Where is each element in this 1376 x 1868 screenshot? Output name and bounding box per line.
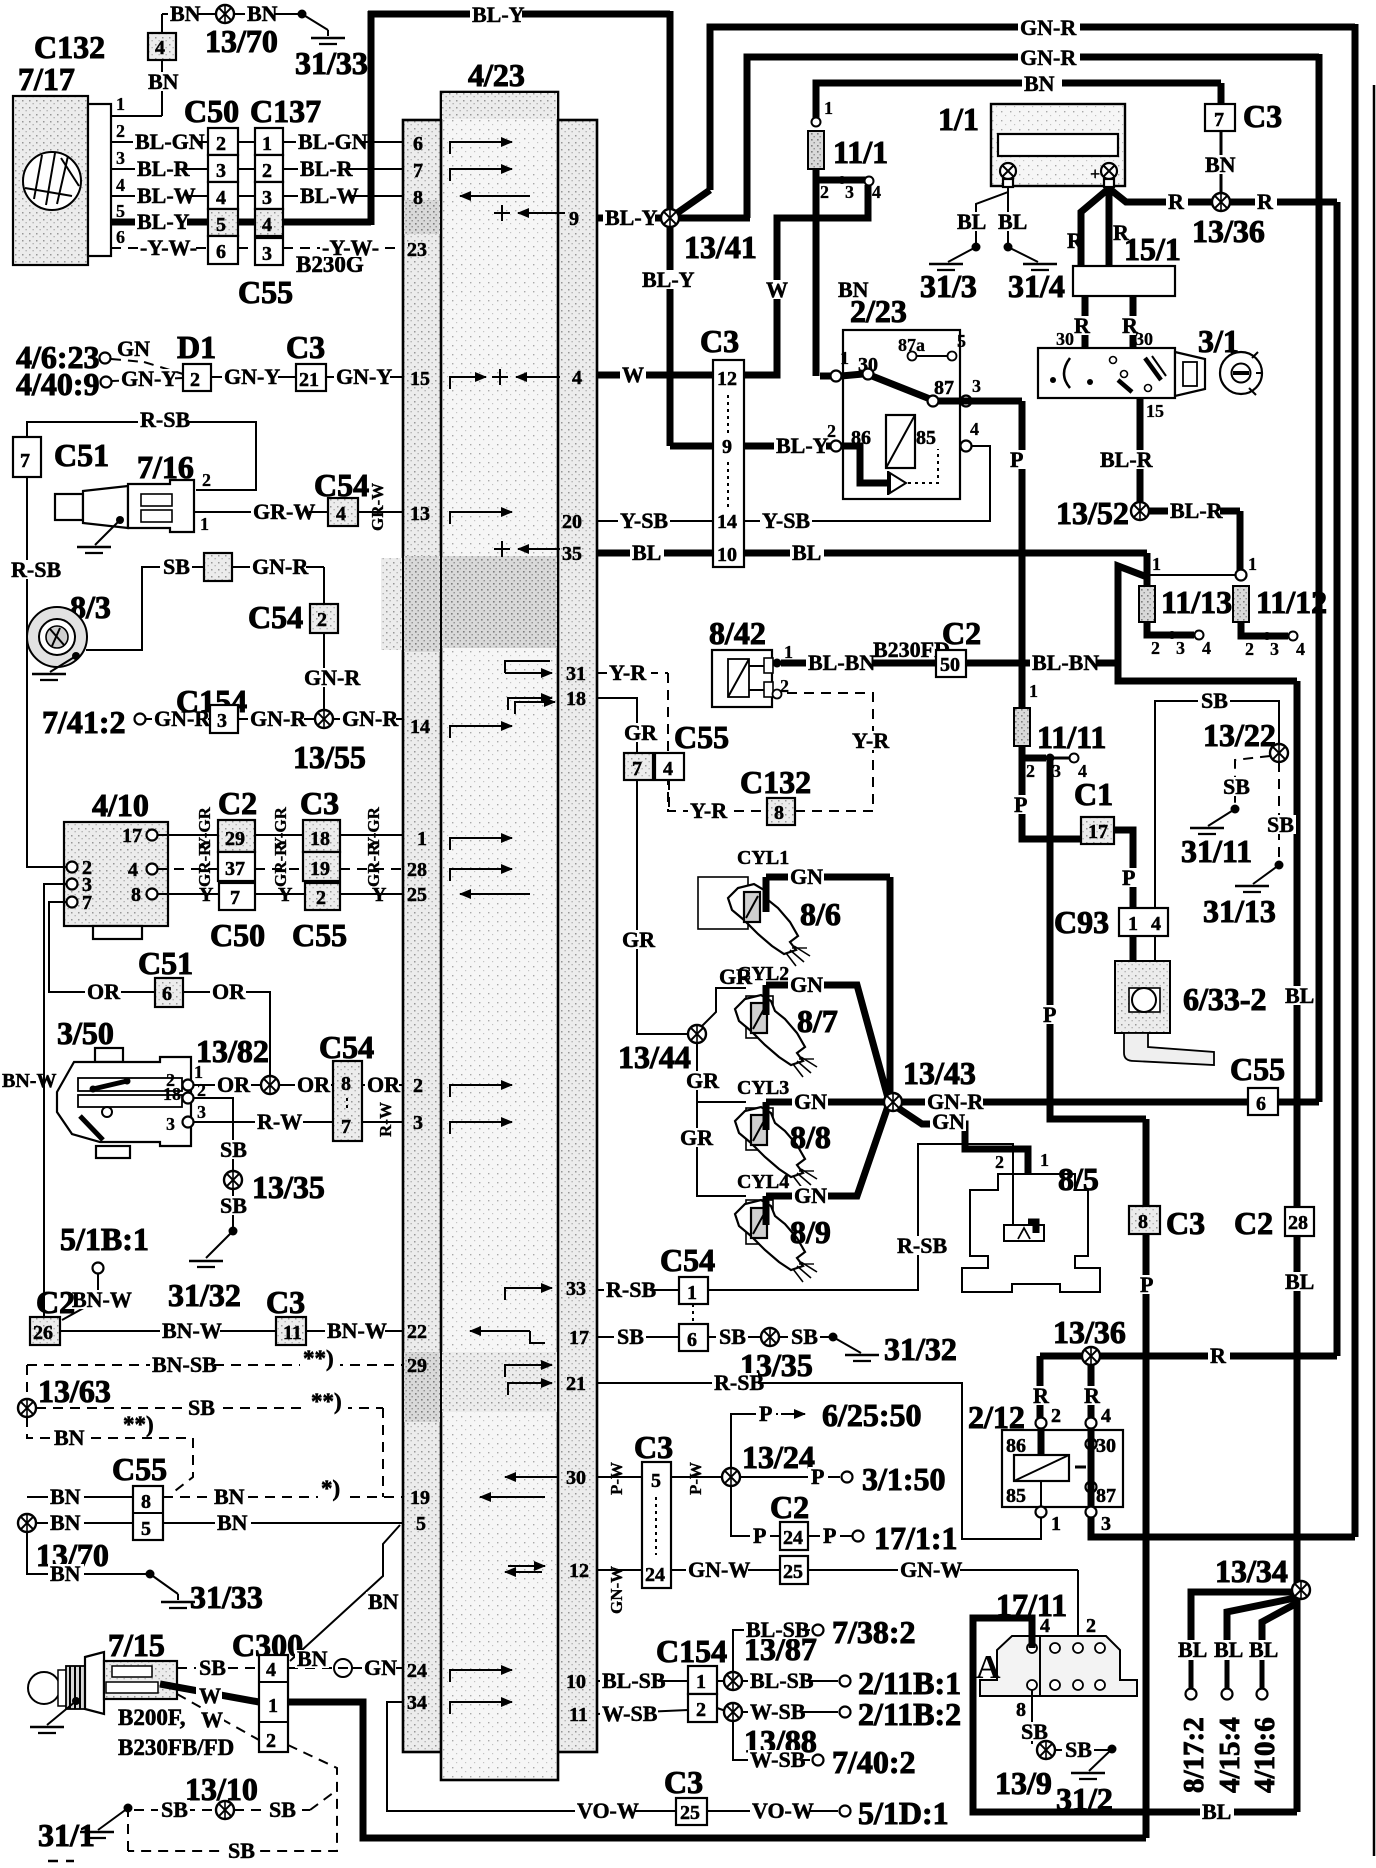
svg-text:VO-W: VO-W: [752, 1798, 814, 1823]
svg-text:7/15: 7/15: [108, 1627, 165, 1663]
svg-text:7: 7: [341, 1116, 351, 1138]
svg-text:5/1D:1: 5/1D:1: [858, 1795, 949, 1831]
svg-text:R: R: [1084, 1383, 1101, 1408]
svg-text:28: 28: [1288, 1212, 1308, 1234]
svg-text:SB: SB: [199, 1655, 226, 1680]
svg-text:GN-Y: GN-Y: [121, 366, 177, 391]
wire BN to ground 31/33: [27, 1532, 148, 1574]
wire R-W row pin 3: [193, 1121, 333, 1123]
svg-text:GR: GR: [624, 720, 658, 745]
svg-text:GR: GR: [680, 1125, 714, 1150]
svg-text:10: 10: [566, 1671, 586, 1693]
svg-text:4: 4: [970, 419, 979, 439]
svg-text:5/1B:1: 5/1B:1: [60, 1221, 149, 1257]
svg-text:BL-SB: BL-SB: [746, 1617, 810, 1642]
svg-text:BN: BN: [54, 1425, 85, 1450]
wire BL battery minus to grounds 31/3 31/4: [976, 187, 1008, 247]
idle valve 6/33-2: [1130, 936, 1137, 995]
svg-text:GR-W: GR-W: [368, 483, 387, 531]
wire W dashed 7/15 to C300 pin2: [177, 1694, 259, 1740]
svg-text:21: 21: [299, 369, 319, 391]
wire BL-SB to 2/11B:1: [741, 1680, 838, 1682]
svg-text:GR-R: GR-R: [364, 843, 383, 887]
svg-text:1: 1: [1128, 913, 1138, 935]
wire SB dashed to ground 31/13: [1278, 762, 1280, 862]
svg-text:BL: BL: [1178, 1637, 1207, 1662]
svg-text:50: 50: [940, 654, 960, 676]
svg-text:18: 18: [566, 688, 586, 710]
svg-text:37: 37: [225, 858, 245, 880]
svg-text:*): *): [321, 1476, 340, 1501]
svg-text:7/38:2: 7/38:2: [832, 1614, 916, 1650]
svg-text:4: 4: [266, 1659, 276, 1681]
svg-text:31: 31: [566, 663, 586, 685]
svg-text:17: 17: [122, 825, 142, 847]
svg-text:C50: C50: [184, 93, 239, 129]
wire P up to 6/25:50: [731, 1414, 778, 1468]
svg-text:SB: SB: [188, 1395, 215, 1420]
svg-text:SB: SB: [220, 1137, 247, 1162]
svg-text:R-SB: R-SB: [11, 557, 61, 582]
svg-text:34: 34: [407, 1692, 427, 1714]
wire BL-GN row: [111, 141, 208, 143]
svg-text:85: 85: [916, 427, 936, 449]
svg-text:13/9: 13/9: [995, 1765, 1052, 1801]
BL-Y top rail: [368, 11, 670, 18]
svg-text:SB: SB: [1223, 774, 1250, 799]
wire W-SB pin11 to C154 2: [597, 1710, 688, 1714]
svg-text:GN-W: GN-W: [688, 1557, 750, 1582]
svg-text:W-SB: W-SB: [750, 1699, 806, 1724]
wire P main vertical: [1143, 1119, 1150, 1838]
svg-text:VO-W: VO-W: [577, 1798, 639, 1823]
svg-text:1: 1: [840, 348, 849, 368]
svg-text:GN-R: GN-R: [250, 706, 307, 731]
svg-text:C3: C3: [664, 1764, 703, 1800]
svg-text:18: 18: [163, 1084, 181, 1104]
wire BN-W row pin 22: [60, 1330, 276, 1332]
svg-text:7: 7: [632, 758, 642, 780]
svg-text:C3: C3: [1243, 98, 1282, 134]
svg-text:Y-SB: Y-SB: [620, 508, 668, 533]
connector C54 box 2: [310, 604, 338, 633]
svg-text:15: 15: [1146, 401, 1164, 421]
svg-text:1: 1: [417, 828, 427, 850]
svg-text:13/36: 13/36: [1053, 1314, 1126, 1350]
svg-text:35: 35: [562, 543, 582, 565]
svg-text:BL: BL: [1285, 1269, 1314, 1294]
svg-text:3: 3: [216, 160, 226, 182]
wire GN-W row pin12: [597, 1569, 642, 1571]
wire BL branch 4/10:6: [1262, 1603, 1297, 1640]
svg-text:24: 24: [783, 1527, 803, 1549]
svg-text:87: 87: [934, 377, 954, 399]
svg-text:8: 8: [341, 1073, 351, 1095]
svg-text:2: 2: [1245, 639, 1254, 659]
svg-text:2: 2: [1026, 761, 1035, 781]
svg-text:24: 24: [645, 1564, 665, 1586]
svg-text:3: 3: [972, 376, 981, 396]
svg-text:8: 8: [1138, 1211, 1148, 1233]
svg-text:BL-W: BL-W: [137, 183, 196, 208]
svg-text:6/33-2: 6/33-2: [1183, 981, 1267, 1017]
wire BL-Y thick row: [111, 219, 208, 226]
svg-text:4: 4: [1202, 638, 1211, 658]
svg-text:1: 1: [1029, 681, 1038, 701]
svg-text:W: W: [622, 362, 644, 387]
wires C137 to ECU: [283, 141, 403, 143]
svg-text:2: 2: [820, 182, 829, 202]
svg-text:BN-W: BN-W: [162, 1318, 222, 1343]
svg-text:GN: GN: [794, 1089, 827, 1114]
wire BL-Y 13/41 to C3 9: [670, 443, 713, 450]
wire GN-R rail 1 right vertical: [1352, 24, 1359, 1537]
svg-text:BL: BL: [792, 540, 821, 565]
svg-text:6: 6: [1256, 1093, 1266, 1115]
svg-text:1: 1: [200, 514, 209, 534]
svg-text:8: 8: [413, 187, 423, 209]
wire BL label on vertical: [1283, 1272, 1313, 1291]
svg-text:10: 10: [717, 544, 737, 566]
page edge line: [1373, 85, 1376, 1856]
svg-text:SB: SB: [161, 1797, 188, 1822]
svg-text:13/34: 13/34: [1215, 1553, 1288, 1589]
wire 8/3 SB to box: [86, 567, 204, 650]
svg-text:4: 4: [216, 187, 226, 209]
svg-text:13/70: 13/70: [205, 23, 278, 59]
svg-text:BL: BL: [632, 540, 661, 565]
svg-text:3: 3: [1101, 1513, 1111, 1535]
svg-text:GR-W: GR-W: [253, 499, 315, 524]
wire BL-Y C3 9 to relay 86: [744, 443, 831, 450]
svg-text:SB: SB: [228, 1838, 255, 1863]
svg-text:85: 85: [1006, 1485, 1026, 1507]
svg-text:5: 5: [116, 201, 125, 221]
svg-text:7: 7: [82, 892, 92, 914]
wire R from pin3 to right rail: [1091, 1517, 1355, 1537]
wire GR to CYL2: [701, 988, 746, 1027]
svg-text:C2: C2: [36, 1284, 75, 1320]
wire W fuse leg to C3 12: [744, 185, 868, 375]
svg-text:Y-GR: Y-GR: [271, 806, 290, 849]
svg-text:3: 3: [1270, 639, 1279, 659]
svg-text:4: 4: [1101, 1405, 1111, 1427]
svg-text:31/2: 31/2: [1056, 1781, 1113, 1817]
svg-text:R-SB: R-SB: [897, 1233, 947, 1258]
wire P right to 3/1:50: [740, 1476, 840, 1478]
ground 31/32 right: [829, 1333, 838, 1342]
wire W pin 4 to C3 12: [597, 372, 713, 379]
svg-text:P: P: [753, 1523, 766, 1548]
splice 13/24: [722, 1468, 740, 1486]
svg-text:29: 29: [407, 1355, 427, 1377]
wire W thick 7/15 to C300 pin1: [160, 1684, 259, 1702]
svg-text:29: 29: [225, 828, 245, 850]
svg-text:BL-GN: BL-GN: [135, 129, 205, 154]
svg-text:31/33: 31/33: [295, 45, 368, 81]
svg-text:4: 4: [872, 182, 881, 202]
svg-text:GN-R: GN-R: [342, 706, 399, 731]
svg-text:5: 5: [216, 214, 226, 236]
wire R-SB pin33: [597, 1289, 679, 1291]
svg-text:OR: OR: [87, 979, 121, 1004]
svg-text:P: P: [1122, 865, 1135, 890]
svg-text:GN: GN: [790, 864, 823, 889]
svg-text:BL-R: BL-R: [1100, 447, 1154, 472]
svg-text:OR: OR: [212, 979, 246, 1004]
wire GR down to CYL3 CYL4: [697, 1043, 746, 1196]
wire GR-W row pin 13: [194, 511, 328, 513]
svg-text:BL-SB: BL-SB: [602, 1668, 666, 1693]
svg-text:31/32: 31/32: [884, 1331, 957, 1367]
svg-text:33: 33: [566, 1278, 586, 1300]
svg-text:3: 3: [217, 710, 227, 732]
svg-text:3: 3: [262, 243, 272, 265]
ECU 4/23 outer connector column: [403, 120, 597, 1752]
svg-text:31/32: 31/32: [168, 1277, 241, 1313]
svg-text:C3: C3: [286, 329, 325, 365]
wire BL-R row: [111, 168, 208, 170]
svg-text:BN: BN: [50, 1561, 81, 1586]
svg-text:18: 18: [310, 828, 330, 850]
svg-text:86: 86: [1006, 1435, 1026, 1457]
svg-text:SB: SB: [163, 554, 190, 579]
svg-text:31/11: 31/11: [1181, 833, 1252, 869]
svg-text:BN-W: BN-W: [2, 1070, 56, 1092]
svg-text:BL-W: BL-W: [300, 183, 359, 208]
svg-text:3: 3: [845, 182, 854, 202]
svg-text:Y-GR: Y-GR: [195, 806, 214, 849]
svg-text:GN: GN: [117, 336, 150, 361]
svg-text:C154: C154: [656, 1633, 727, 1669]
ground 31/1: [124, 1804, 133, 1813]
svg-text:BL-Y: BL-Y: [642, 267, 695, 292]
svg-text:7: 7: [230, 887, 240, 909]
svg-text:Y-R: Y-R: [852, 728, 890, 753]
splice 13/10: [216, 1801, 234, 1819]
svg-text:2: 2: [995, 1152, 1004, 1172]
wire Y-SB C3 14 to relay 4: [744, 446, 990, 521]
svg-text:**): **): [303, 1346, 334, 1371]
svg-text:BN: BN: [50, 1484, 81, 1509]
svg-text:-Y-W-: -Y-W-: [322, 235, 379, 260]
7/15 ground: [72, 1697, 80, 1705]
svg-text:2: 2: [1051, 1405, 1061, 1427]
svg-text:13/44: 13/44: [618, 1039, 691, 1075]
connector C54 boxes 8/7: [333, 1061, 362, 1141]
svg-text:GN-R: GN-R: [1020, 15, 1077, 40]
svg-text:4: 4: [1040, 1615, 1050, 1637]
svg-text:5: 5: [141, 1518, 151, 1540]
svg-text:R: R: [1033, 1383, 1050, 1408]
svg-text:1: 1: [262, 133, 272, 155]
wire GR pin18 to C55 7: [597, 698, 637, 753]
wire GN-R rail 2 right vertical: [1316, 54, 1323, 1102]
svg-text:BN: BN: [50, 1510, 81, 1535]
svg-text:A: A: [976, 1649, 1001, 1686]
svg-text:Y: Y: [199, 884, 214, 906]
svg-text:7: 7: [413, 160, 423, 182]
svg-text:BL-R: BL-R: [137, 156, 191, 181]
wire BL-W row: [111, 195, 208, 197]
wire OR from 4/10 pin7 to C51 box 6: [49, 902, 155, 992]
svg-text:4: 4: [262, 214, 272, 236]
svg-text:P: P: [759, 1401, 772, 1426]
svg-text:13/63: 13/63: [38, 1373, 111, 1409]
svg-text:GN-W: GN-W: [607, 1566, 626, 1614]
svg-text:GR-R: GR-R: [195, 843, 214, 887]
svg-text:GN: GN: [790, 972, 823, 997]
svg-text:C2: C2: [218, 785, 257, 821]
svg-text:8/6: 8/6: [800, 896, 841, 932]
splice 13/70 top: [216, 5, 234, 23]
svg-text:SB: SB: [269, 1797, 296, 1822]
svg-text:BL-BN: BL-BN: [808, 650, 875, 675]
wire GN-R rail 2: [747, 57, 1319, 218]
svg-text:BL: BL: [1214, 1637, 1243, 1662]
svg-text:C55: C55: [238, 274, 293, 310]
svg-text:30: 30: [1056, 329, 1074, 349]
wire R-SB to 7/16 pin 2: [27, 422, 256, 490]
svg-text:1: 1: [696, 1671, 706, 1693]
svg-text:31/3: 31/3: [920, 268, 977, 304]
svg-text:BN: BN: [1205, 152, 1236, 177]
svg-text:R: R: [1210, 1343, 1227, 1368]
svg-text:BN: BN: [217, 1510, 248, 1535]
svg-text:W: W: [766, 277, 788, 302]
svg-text:6/25:50: 6/25:50: [822, 1397, 922, 1433]
svg-text:8/42: 8/42: [709, 615, 766, 651]
wire W-SB to 2/11B:2: [741, 1711, 838, 1713]
svg-text:13/36: 13/36: [1192, 213, 1265, 249]
svg-text:4: 4: [128, 859, 138, 881]
svg-text:8/17:2: 8/17:2: [1178, 1717, 1210, 1793]
svg-text:5: 5: [957, 331, 966, 351]
svg-text:W: W: [201, 1707, 223, 1732]
wire BN C132 to 7/17 pin1: [161, 60, 163, 116]
speckle bands: [404, 200, 440, 234]
svg-text:B200F,: B200F,: [118, 1705, 186, 1730]
svg-text:17: 17: [1088, 821, 1108, 843]
svg-text:BL-Y: BL-Y: [472, 2, 525, 27]
svg-text:13/22: 13/22: [1203, 717, 1276, 753]
svg-text:2: 2: [262, 160, 272, 182]
svg-text:Y: Y: [372, 884, 387, 906]
svg-text:C3: C3: [700, 323, 739, 359]
svg-text:25: 25: [407, 884, 427, 906]
relay coil: [886, 415, 915, 468]
svg-text:2: 2: [116, 121, 125, 141]
wire SB dashed from C300 pin2: [128, 1745, 337, 1851]
svg-text:4/15:4: 4/15:4: [1214, 1717, 1246, 1793]
svg-text:R-W: R-W: [257, 1109, 302, 1134]
svg-text:4: 4: [1151, 913, 1161, 935]
svg-text:23: 23: [407, 239, 427, 261]
svg-text:25: 25: [783, 1561, 803, 1583]
svg-text:12: 12: [717, 368, 737, 390]
svg-text:CYL1: CYL1: [737, 847, 789, 869]
svg-text:BL-Y: BL-Y: [605, 205, 658, 230]
wire GR distribution: [637, 780, 688, 1034]
svg-text:22: 22: [407, 1321, 427, 1343]
wire SB from 3/50 pin 2 to ground: [193, 1098, 233, 1171]
svg-text:R: R: [1067, 228, 1084, 253]
svg-text:C54: C54: [319, 1029, 374, 1065]
svg-text:30: 30: [566, 1467, 586, 1489]
svg-text:17: 17: [569, 1327, 589, 1349]
svg-text:31/13: 31/13: [1203, 893, 1276, 929]
svg-text:21: 21: [566, 1373, 586, 1395]
svg-text:BL: BL: [998, 209, 1027, 234]
svg-text:SB: SB: [617, 1324, 644, 1349]
svg-text:4: 4: [155, 37, 165, 59]
svg-text:2: 2: [317, 609, 327, 631]
svg-text:OR: OR: [367, 1072, 401, 1097]
svg-text:SB: SB: [1065, 1737, 1092, 1762]
svg-text:D1: D1: [177, 329, 216, 365]
svg-text:8/9: 8/9: [790, 1214, 831, 1250]
wire BL row pin 35: [597, 550, 713, 557]
svg-text:C2: C2: [770, 1489, 809, 1525]
wire GN-R rail 1: [710, 27, 1355, 190]
svg-text:8/8: 8/8: [790, 1119, 831, 1155]
svg-text:8/7: 8/7: [797, 1003, 838, 1039]
svg-text:GN-W: GN-W: [900, 1557, 962, 1582]
8/3 ground: [72, 652, 80, 660]
wire thick 17/11 pin4 loop: [973, 1618, 1143, 1812]
wire W-SB to 7/40:2: [733, 1720, 810, 1760]
wire BL pin35 corner down to 11/13: [1144, 553, 1151, 575]
svg-text:SB: SB: [719, 1324, 746, 1349]
svg-text:P: P: [1014, 792, 1027, 817]
svg-text:SB: SB: [791, 1324, 818, 1349]
svg-text:87: 87: [1096, 1485, 1116, 1507]
svg-text:6: 6: [413, 133, 423, 155]
svg-text:1: 1: [116, 94, 125, 114]
svg-text:W-SB: W-SB: [602, 1701, 658, 1726]
wire Y-R dashed pin31 to C132: [597, 672, 668, 674]
svg-text:7/41:2: 7/41:2: [42, 704, 126, 740]
wire R-SB from C51:7 to 4/10 pin2: [27, 477, 66, 867]
svg-text:BN: BN: [148, 69, 179, 94]
wire BL branch 8/17:2: [1191, 1592, 1293, 1640]
svg-text:R-W: R-W: [376, 1102, 395, 1137]
svg-text:7: 7: [20, 450, 30, 472]
svg-text:GN: GN: [794, 1183, 827, 1208]
svg-text:30: 30: [1096, 1435, 1116, 1457]
svg-text:2: 2: [202, 470, 211, 490]
svg-text:24: 24: [407, 1660, 427, 1682]
svg-text:BL: BL: [1202, 1799, 1231, 1824]
wire BN to splice 13/70: [162, 13, 302, 15]
svg-text:14: 14: [410, 716, 430, 738]
splice 13/55: [315, 710, 333, 728]
wire BN down to relay 2/23: [813, 180, 820, 376]
svg-text:31/33: 31/33: [190, 1579, 263, 1615]
wire BN dashed right of pin8 to ECU pin 19: [163, 1496, 403, 1498]
svg-text:GN-R: GN-R: [1020, 45, 1077, 70]
wire BN row pin 5: [36, 1522, 133, 1524]
splice 13/44: [688, 1025, 706, 1043]
connector C51 box 7: [13, 437, 41, 477]
wire P-W pin30 to C3 5: [597, 1476, 642, 1478]
svg-text:4/40:9: 4/40:9: [16, 366, 100, 402]
wire BL-BN up to fuse 11/13: [1118, 566, 1147, 663]
svg-text:13/10: 13/10: [185, 1771, 258, 1807]
splice 13/34: [1292, 1581, 1310, 1599]
svg-text:13/43: 13/43: [903, 1055, 976, 1091]
svg-text:6: 6: [687, 1329, 697, 1351]
